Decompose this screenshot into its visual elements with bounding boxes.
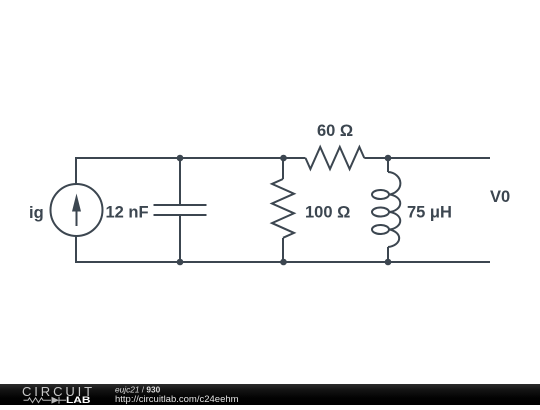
svg-text:ig: ig [29, 204, 44, 222]
svg-text:100 Ω: 100 Ω [305, 204, 350, 222]
junction dot top capacitor [177, 155, 184, 162]
svg-text:60 Ω: 60 Ω [317, 122, 353, 140]
inductor L 75uH coil [388, 172, 400, 195]
capacitor C 12nF wires [179, 158, 181, 204]
resistor R 100 ohm zigzag [272, 179, 294, 238]
inductor L 75uH wires [387, 158, 389, 172]
svg-text:LAB: LAB [66, 395, 91, 405]
svg-text:75 μH: 75 μH [407, 204, 452, 222]
current source ig circle [51, 184, 103, 236]
svg-text:http://circuitlab.com/c24eehm: http://circuitlab.com/c24eehm [115, 394, 239, 405]
current source arrow [76, 205, 78, 226]
logo resistor zigzag and diode [24, 397, 67, 404]
capacitor C 12nF plates [154, 204, 207, 206]
junction dot bottom capacitor [177, 259, 184, 266]
wire top-right segment [364, 157, 490, 159]
svg-text:eujc21 / 930: eujc21 / 930 [115, 384, 161, 394]
resistor R 60 ohm [306, 147, 365, 169]
wire bottom [76, 236, 490, 262]
wire top-left segment [76, 158, 306, 184]
resistor R 100 ohm wires [282, 158, 284, 179]
svg-text:12 nF: 12 nF [106, 204, 149, 222]
svg-text:V0: V0 [490, 188, 510, 206]
junction dot top 100ohm [280, 155, 287, 162]
junction dot bottom inductor [385, 259, 392, 266]
junction dot bottom 100ohm [280, 259, 287, 266]
junction dot top inductor [385, 155, 392, 162]
